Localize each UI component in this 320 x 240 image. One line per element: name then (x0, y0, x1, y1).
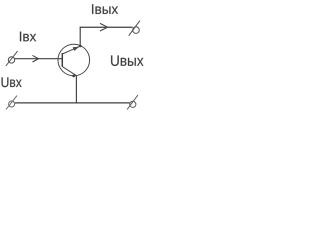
junction dot (collector lead) (79, 45, 82, 48)
transistor Q1: base bar (61, 53, 63, 67)
transistor Q1: emitter diagonal (62, 67, 76, 76)
background (0, 0, 148, 117)
label Iвх (20, 32, 36, 42)
common terminal (bottom left) (6, 96, 17, 110)
common terminal (bottom right) (127, 95, 138, 109)
wire: output top horizontal (80, 26, 133, 28)
label Iвых (92, 4, 118, 14)
arrow on output wire (100, 23, 108, 31)
label Uвх (2, 77, 22, 87)
transistor Q1: circle (58, 44, 90, 76)
transistor Q1: emitter arrow head (73, 47, 80, 51)
wire: emitter vertical (75, 75, 77, 102)
output terminal (top right) (129, 21, 140, 36)
junction dot (emitter on circle) (72, 75, 75, 78)
input terminal (left) (6, 51, 18, 66)
transistor Q1: collector diagonal (62, 46, 80, 54)
wire: collector vertical (79, 27, 81, 47)
wire: bottom common rail (15, 102, 130, 104)
label Uвых (111, 55, 143, 65)
wire: base input (15, 58, 63, 60)
arrow on input wire (33, 55, 39, 62)
